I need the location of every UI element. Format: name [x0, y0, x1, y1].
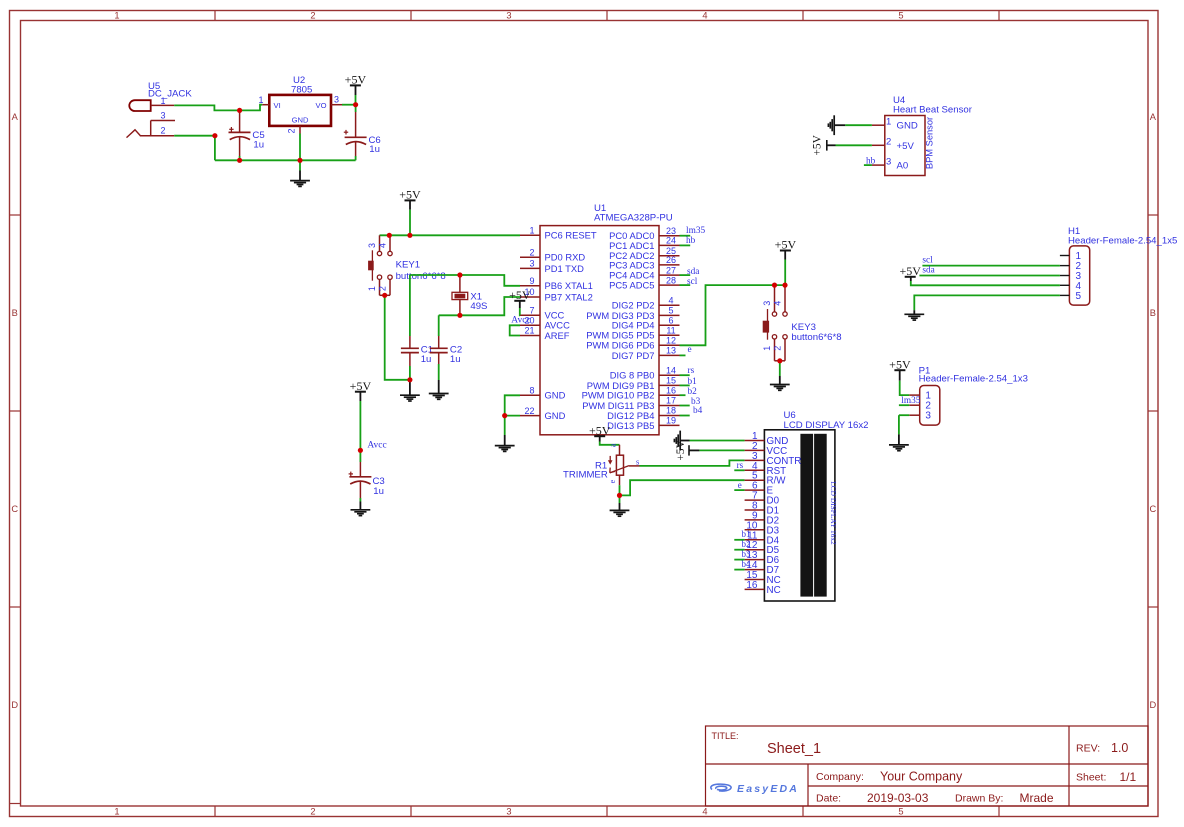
svg-text:22: 22	[524, 406, 534, 416]
svg-text:11: 11	[666, 325, 675, 335]
svg-text:4: 4	[668, 295, 673, 305]
wire +5V to VCC pin	[519, 308, 521, 315]
wire U5 pin1 to U2 VI	[174, 105, 262, 111]
U6 pin 13 (D6)	[734, 549, 779, 566]
wire CONTR net from R1 wiper	[640, 460, 745, 466]
svg-text:e: e	[738, 480, 742, 490]
U1 pin 27 (PC4 ADC4)	[609, 265, 699, 280]
svg-text:b3: b3	[742, 549, 752, 559]
svg-text:sda: sda	[922, 266, 934, 276]
svg-text:PC6 RESET: PC6 RESET	[545, 230, 597, 241]
svg-text:5: 5	[1076, 291, 1082, 302]
U6 pin 4 (RST)	[745, 461, 787, 477]
wire +5V to H1 pin4	[911, 281, 1060, 285]
svg-text:Date:: Date:	[816, 793, 841, 805]
U1 pin 23 (PC0 ADC0)	[609, 226, 705, 241]
wire +5V to KEY3	[784, 260, 786, 286]
svg-text:REV:: REV:	[1076, 743, 1100, 755]
svg-text:C: C	[1149, 504, 1156, 514]
power flag +5V above R1	[594, 435, 605, 437]
junction reset net at KEY1 pin4	[387, 233, 392, 238]
H1 pin 1	[1060, 251, 1082, 262]
svg-text:+5V: +5V	[350, 379, 372, 393]
svg-text:4: 4	[702, 806, 707, 816]
ground symbol below U2	[299, 160, 301, 170]
svg-text:button6*6*8: button6*6*8	[791, 332, 841, 343]
header P1 body	[920, 386, 940, 426]
svg-text:3: 3	[367, 243, 377, 248]
svg-text:DIG7 PD7: DIG7 PD7	[612, 350, 655, 361]
svg-text:Your Company: Your Company	[880, 770, 963, 784]
U2 pin 1	[262, 104, 269, 106]
power flag +5V at U4 (rotated)	[826, 140, 828, 151]
svg-text:12: 12	[666, 336, 676, 346]
svg-text:KEY1: KEY1	[396, 259, 421, 270]
wire XTAL1 net	[410, 275, 520, 286]
svg-text:TITLE:: TITLE:	[712, 731, 739, 741]
svg-text:9: 9	[529, 276, 534, 286]
wire U5 pin2 to ground rail	[174, 136, 215, 161]
crystal X1 body	[452, 292, 468, 299]
svg-text:PB6 XTAL1: PB6 XTAL1	[545, 280, 593, 291]
svg-text:Sheet_1: Sheet_1	[767, 741, 821, 757]
U1 pin 11 (PWM DIG5 PD5)	[586, 325, 679, 340]
U1 pin 3 (PD1 TXD)	[520, 259, 584, 274]
junction VI node	[237, 108, 242, 113]
U1 pin 6 (DIG4 PD4)	[612, 316, 680, 331]
svg-text:scl: scl	[922, 255, 933, 265]
svg-text:scl: scl	[687, 277, 698, 287]
svg-text:+5V: +5V	[889, 357, 911, 371]
svg-text:rs: rs	[688, 366, 695, 376]
capacitor C1 leads	[409, 336, 411, 348]
capacitor C5 leads	[239, 112, 241, 132]
svg-text:8: 8	[529, 386, 534, 396]
U1 pin 18 (DIG12 PB4)	[607, 406, 703, 421]
svg-text:1.0: 1.0	[1111, 741, 1128, 755]
U6 pin 11 (D4)	[734, 529, 779, 546]
svg-text:24: 24	[666, 236, 676, 246]
svg-text:1u: 1u	[450, 354, 461, 365]
power flag +5V above KEY1	[405, 199, 416, 201]
wire H1 pin5 to ground	[914, 295, 1060, 310]
U1 pin 10 (PB7 XTAL2)	[520, 287, 593, 302]
svg-text:21: 21	[524, 326, 534, 336]
U6 pin 7 (D0)	[745, 491, 780, 507]
title block dividers	[706, 763, 1149, 765]
title block outline	[706, 726, 1149, 806]
EasyEDA logo	[711, 784, 731, 791]
svg-text:Heart Beat Sensor: Heart Beat Sensor	[893, 105, 973, 116]
U1 pin 15 (PWM DIG9 PB1)	[587, 376, 697, 391]
svg-text:Header-Female-2.54_1x3: Header-Female-2.54_1x3	[919, 374, 1028, 385]
capacitor C5 polarized plates	[229, 131, 251, 133]
ground rail wire bottom	[215, 159, 356, 161]
svg-text:1: 1	[160, 96, 165, 106]
svg-text:4: 4	[378, 243, 388, 248]
R1 wiper lead s	[629, 465, 640, 467]
svg-text:1: 1	[114, 806, 119, 816]
wire U4 GND	[845, 124, 872, 126]
svg-text:NC: NC	[767, 585, 781, 596]
svg-text:Drawn By:: Drawn By:	[955, 793, 1003, 805]
U1 pin 16 (PWM DIG10 PB2)	[582, 385, 698, 400]
U6 pin 3 (CONTR)	[745, 451, 802, 467]
C6 plus sign	[345, 130, 347, 135]
capacitor C6 leads	[355, 105, 357, 112]
U6 pin 12 (D5)	[734, 539, 779, 556]
ground symbol below C2	[438, 380, 440, 394]
junction U1 GND	[502, 413, 507, 418]
junction C5 bottom at rail	[237, 158, 242, 163]
svg-text:sda: sda	[687, 267, 699, 277]
pushbutton KEY1 pins 3 and 4	[379, 235, 381, 251]
U6 pin 5 (R/W)	[745, 471, 787, 487]
R1 pin a lead	[619, 445, 621, 455]
P1 pin 1	[909, 391, 931, 402]
svg-text:16: 16	[746, 580, 758, 591]
svg-text:b1: b1	[688, 377, 698, 387]
U1 pin 5 (PWM DIG3 PD3)	[586, 306, 679, 321]
capacitor C2 plates	[430, 347, 448, 349]
U1 pin 25 (PC2 ADC2)	[609, 246, 679, 261]
U1 pin 13 (DIG7 PD7)	[612, 345, 692, 361]
svg-text:GND: GND	[292, 115, 309, 124]
KEY1 actuator	[371, 250, 373, 280]
svg-text:lm35: lm35	[901, 396, 920, 406]
svg-text:19: 19	[666, 416, 676, 426]
junction Avcc node	[358, 448, 363, 453]
wire U6 GND pin	[690, 440, 745, 442]
svg-text:s: s	[636, 456, 639, 466]
svg-text:28: 28	[666, 275, 676, 285]
wire +5V to R1 top	[600, 442, 620, 445]
H1 pin 5	[1060, 291, 1082, 302]
U4 pin 3 (A0)	[872, 156, 908, 171]
wire R1 bottom to ground node	[619, 485, 621, 495]
U6 pin 15 (NC)	[745, 570, 781, 586]
capacitor C3 leads	[359, 462, 361, 477]
junction reset net at +5V	[407, 233, 412, 238]
svg-text:27: 27	[666, 265, 676, 275]
svg-text:2: 2	[287, 128, 297, 133]
capacitor C2 top wire	[438, 315, 440, 336]
svg-text:EasyEDA: EasyEDA	[737, 783, 799, 795]
svg-text:3: 3	[925, 411, 931, 422]
crystal X1 leads	[459, 276, 461, 292]
P1 pin 3	[909, 411, 931, 422]
svg-text:b2: b2	[688, 387, 698, 397]
ground symbol at U4 GND (rotated)	[835, 124, 846, 126]
KEY3 actuator	[767, 309, 769, 340]
junction KEY1 bottom	[382, 293, 387, 298]
svg-text:B: B	[12, 308, 18, 318]
junction KEY3 pin3	[772, 283, 777, 288]
svg-text:D: D	[11, 700, 18, 710]
KEY3 pins 1 and 2	[772, 335, 776, 339]
power flag +5V at P1	[894, 369, 905, 371]
svg-text:2: 2	[310, 11, 315, 21]
U1 pin 26 (PC3 ADC3)	[609, 255, 679, 270]
svg-text:B: B	[1150, 308, 1156, 318]
svg-text:e: e	[688, 345, 692, 355]
H1 pin 2	[1060, 261, 1082, 272]
svg-text:2: 2	[310, 806, 315, 816]
wire +5V to C3	[359, 401, 361, 462]
svg-text:3: 3	[334, 95, 339, 105]
svg-text:23: 23	[666, 226, 676, 236]
wire P1 pin3 to ground	[899, 414, 909, 416]
U1 pin 8 (GND)	[520, 386, 566, 401]
svg-text:D: D	[1149, 700, 1156, 710]
svg-text:rs: rs	[737, 460, 744, 470]
U1 pin 14 (DIG 8 PB0)	[610, 365, 695, 380]
svg-text:A: A	[1150, 112, 1157, 122]
border row ticks right	[1148, 214, 1158, 216]
svg-text:GND: GND	[545, 390, 566, 401]
wire KEY1 bottom to ground node	[385, 295, 410, 380]
svg-text:3: 3	[529, 259, 534, 269]
svg-text:AREF: AREF	[545, 330, 570, 341]
U5 pin 1	[151, 104, 175, 106]
svg-text:5: 5	[668, 306, 673, 316]
R1 wiper arrow	[610, 466, 629, 473]
svg-text:ATMEGA328P-PU: ATMEGA328P-PU	[594, 213, 673, 224]
U1 pin 4 (DIG2 PD2)	[612, 295, 680, 310]
U6 pin 10 (D3)	[745, 520, 780, 536]
svg-text:15: 15	[666, 376, 676, 386]
svg-text:DC_JACK: DC_JACK	[148, 89, 192, 100]
ground symbol below C3	[359, 502, 361, 511]
power flag +5V at U2 output	[350, 84, 361, 86]
wire U2 VO to +5V node	[342, 104, 356, 106]
svg-text:b2: b2	[742, 539, 751, 549]
svg-text:VO: VO	[316, 101, 327, 110]
connector U5 DC_JACK barrel	[129, 100, 150, 111]
svg-text:Sheet:: Sheet:	[1076, 772, 1106, 784]
LCD dark bar left	[801, 434, 813, 596]
junction X1 top	[457, 272, 462, 277]
svg-text:18: 18	[666, 406, 676, 416]
svg-text:14: 14	[666, 365, 676, 375]
svg-text:1: 1	[762, 346, 772, 351]
svg-text:4: 4	[702, 11, 707, 21]
svg-text:1u: 1u	[421, 354, 432, 365]
svg-text:VI: VI	[274, 101, 281, 110]
junction KEY3 pin4	[782, 283, 787, 288]
U1 pin 28 (PC5 ADC5)	[609, 275, 698, 290]
U6 pin 9 (D2)	[745, 510, 779, 526]
svg-text:3: 3	[762, 301, 772, 306]
svg-text:Avcc: Avcc	[367, 441, 386, 451]
junction C1 bottom ground node	[407, 377, 412, 382]
svg-text:13: 13	[666, 346, 676, 356]
U1 pin 1 (PC6 RESET)	[520, 226, 597, 241]
svg-text:Mrade: Mrade	[1020, 791, 1054, 805]
svg-text:GND: GND	[545, 410, 566, 421]
U6 pin 14 (D7)	[734, 559, 779, 576]
LCD U6 body	[764, 430, 835, 601]
U1 pin 24 (PC1 ADC1)	[609, 236, 695, 251]
U6 pin 16 (NC)	[745, 580, 781, 596]
U1 pin 2 (PD0 RXD)	[520, 247, 585, 262]
svg-text:A: A	[12, 112, 19, 122]
junction U2 GND at rail	[297, 158, 302, 163]
U1 pin 17 (PWM DIG11 PB3)	[582, 396, 700, 411]
U1 pin 21 (AREF)	[520, 326, 570, 341]
U1 pin 12 (PWM DIG6 PD6)	[586, 336, 679, 351]
header H1 body	[1069, 246, 1089, 305]
svg-text:GND: GND	[897, 121, 918, 132]
svg-text:+5V: +5V	[675, 439, 687, 460]
wire U4 +5V	[836, 144, 872, 146]
trimmer R1 body	[616, 455, 623, 475]
svg-text:2019-03-03: 2019-03-03	[867, 791, 929, 805]
wire U1 GND pins to ground	[505, 395, 520, 415]
ground symbol below U1 GND	[504, 435, 506, 446]
svg-text:Avcc: Avcc	[511, 316, 530, 326]
wire U6 E stub	[734, 489, 744, 491]
svg-text:1/1: 1/1	[1120, 770, 1137, 784]
svg-text:LCD DISPLAY 16x2: LCD DISPLAY 16x2	[829, 481, 838, 545]
C3 plus sign	[350, 472, 352, 477]
pushbutton KEY3 pins 3 and 4	[774, 285, 776, 312]
wire R/W net from ground node	[620, 480, 745, 495]
power flag +5V above KEY3	[780, 250, 791, 252]
svg-text:b4: b4	[693, 406, 703, 416]
wire U6 VCC pin	[699, 449, 744, 451]
svg-text:1u: 1u	[373, 486, 384, 497]
power flag +5V at U1 VCC	[514, 300, 525, 302]
U2 pin 2	[299, 126, 301, 134]
svg-text:2: 2	[886, 137, 891, 148]
ground symbol below KEY3	[779, 376, 781, 385]
U6 pin 1 (GND)	[745, 431, 789, 447]
junction +5V output node	[353, 102, 358, 107]
U5 pin 3	[151, 120, 175, 122]
wire sda to H1 pin3	[919, 275, 1060, 277]
svg-text:+5V: +5V	[899, 264, 921, 278]
capacitor C1 plates	[401, 347, 419, 349]
svg-text:button6*6*8: button6*6*8	[396, 271, 446, 282]
svg-text:2: 2	[378, 286, 388, 291]
ground symbol at U6 GND (rotated)	[680, 440, 689, 442]
svg-text:hb: hb	[686, 236, 696, 246]
svg-text:+5V: +5V	[399, 188, 421, 202]
svg-text:lm35: lm35	[686, 226, 705, 236]
svg-text:+5V: +5V	[812, 134, 824, 155]
svg-text:1u: 1u	[369, 144, 380, 155]
wire XTAL2 net	[439, 297, 520, 315]
svg-text:hb: hb	[866, 156, 876, 166]
wire +5V down to reset net	[409, 210, 411, 236]
ground symbol at H1 pin5	[913, 310, 915, 314]
svg-text:a: a	[608, 443, 617, 447]
wire AVCC-AREF loop	[510, 325, 520, 335]
svg-text:1: 1	[886, 116, 891, 127]
svg-text:26: 26	[666, 255, 676, 265]
svg-text:+5V: +5V	[345, 73, 367, 87]
capacitor C2 leads	[438, 336, 440, 348]
svg-text:3: 3	[506, 11, 511, 21]
ground symbol below R1	[619, 495, 621, 503]
power flag +5V at U6 VCC (rotated)	[688, 445, 690, 455]
H1 pin 4	[1060, 281, 1082, 292]
svg-text:7805: 7805	[291, 84, 312, 95]
border row ticks left	[10, 214, 21, 216]
svg-text:49S: 49S	[470, 301, 487, 312]
svg-text:1: 1	[529, 226, 534, 236]
svg-text:Header-Female-2.54_1x5: Header-Female-2.54_1x5	[1068, 236, 1177, 247]
svg-text:e: e	[608, 479, 617, 483]
U1 pin 7 (VCC)	[520, 306, 565, 321]
U1 pin 22 (GND)	[520, 406, 566, 421]
wire lm35 to P1 pin2	[899, 404, 909, 406]
border column ticks bottom	[214, 806, 216, 817]
svg-text:16: 16	[666, 385, 676, 395]
svg-text:+5V: +5V	[897, 141, 915, 152]
wire C1 top	[409, 275, 411, 336]
U6 pin 6 (E)	[745, 481, 774, 497]
svg-text:5: 5	[898, 11, 903, 21]
U5 pin 2 with spring contact	[140, 135, 174, 137]
wire U6 RST stub	[734, 469, 744, 471]
LCD dark bar right	[815, 434, 827, 596]
junction KEY3 bottom	[777, 358, 782, 363]
junction on U5 pin2 wire	[212, 133, 217, 138]
svg-text:PC5 ADC5: PC5 ADC5	[609, 280, 654, 291]
P1 pin 2	[909, 401, 931, 412]
U4 pin 1 (GND)	[872, 116, 918, 131]
svg-text:17: 17	[666, 396, 676, 406]
junction X1 bottom	[457, 313, 462, 318]
U1 pin 19 (DIG13 PB5)	[607, 416, 679, 431]
sensor U4 body	[885, 116, 925, 176]
wire reset net to U1 pin1	[380, 234, 521, 236]
H1 pin 3	[1060, 271, 1082, 282]
U1 pin 20 (AVCC)	[520, 316, 570, 331]
svg-text:TRIMMER: TRIMMER	[563, 470, 608, 481]
svg-text:PB7 XTAL2: PB7 XTAL2	[545, 291, 593, 302]
wire scl to H1 pin2	[922, 265, 1060, 267]
wire +5V to P1 pin1	[900, 381, 910, 395]
R1 pin e lead	[619, 475, 621, 485]
border column ticks top	[214, 11, 216, 21]
U4 pin 2 (+5V)	[872, 137, 915, 152]
C5 plus sign	[230, 127, 232, 132]
svg-text:1: 1	[258, 95, 263, 105]
svg-text:+5V: +5V	[775, 238, 797, 252]
power flag +5V at H1 pin4	[905, 276, 916, 278]
wire U2 GND down to rail	[299, 134, 301, 161]
U1 pin 9 (PB6 XTAL1)	[520, 276, 593, 291]
junction R1 ground node	[617, 493, 622, 498]
ground symbol below C1	[409, 382, 411, 395]
U6 pin 8 (D1)	[745, 501, 779, 517]
svg-text:BPM Sensor: BPM Sensor	[924, 117, 934, 169]
svg-text:DIG13 PB5: DIG13 PB5	[607, 420, 654, 431]
svg-text:PD0 RXD: PD0 RXD	[545, 252, 586, 263]
svg-text:1u: 1u	[253, 140, 264, 151]
wire U4 A0 stub	[864, 164, 872, 166]
svg-text:b1: b1	[742, 529, 751, 539]
svg-text:3: 3	[886, 156, 891, 167]
MCU U1 body	[540, 226, 659, 435]
wire KEY3 bottom to ground	[779, 361, 781, 376]
svg-text:3: 3	[160, 110, 165, 120]
svg-text:6: 6	[668, 316, 673, 326]
svg-text:Company:: Company:	[816, 771, 864, 783]
